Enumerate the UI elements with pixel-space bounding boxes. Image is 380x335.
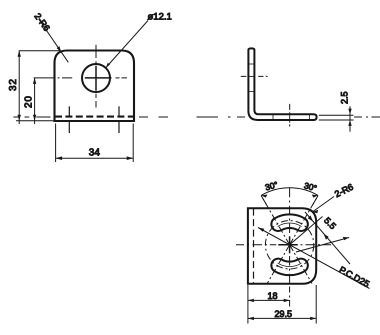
svg-text:5.5: 5.5 [322,215,338,231]
bottom slot centerline arc [278,263,302,267]
top arc slot [271,214,307,231]
bottom view horizontal centerline [236,244,331,246]
side view L profile outline [248,48,316,120]
radial line bottom-left 30deg [267,245,289,284]
dimension 34 [56,124,134,163]
left slot center mark [68,106,70,133]
dimension 29.5 [248,285,316,324]
hole circle [82,64,110,92]
hole horizontal centerline [34,77,127,79]
svg-text:34: 34 [89,148,101,159]
diagonal line through center [290,217,323,245]
side view slot center mark [289,104,291,127]
leader 2-R6 (front) [39,20,68,63]
svg-text:29.5: 29.5 [275,309,293,319]
svg-text:30°: 30° [303,180,318,193]
svg-text:2-R6: 2-R6 [333,182,355,200]
dimension 32 [16,51,60,124]
svg-text:30°: 30° [264,179,279,192]
long horizontal centerline y=117 [13,116,50,118]
pcd pointer line [296,238,349,253]
dimension 2.5 [319,106,354,132]
leader 2-R6 (bottom view) [312,197,334,213]
svg-text:2-R6: 2-R6 [32,11,52,33]
PCD leader line [258,228,370,289]
top slot centerline arc [278,223,302,227]
svg-text:18: 18 [268,291,278,301]
bottom view vertical centerline [289,188,291,307]
bottom view bend tangent hidden line [253,209,255,284]
side view slot projection ticks [272,114,274,120]
pitch circle [265,221,313,269]
dimension 18 [248,285,290,307]
hole vertical centerline [95,45,97,108]
right slot center mark [118,106,120,133]
angle dimension arc [261,188,318,196]
side view hole center mark [241,75,268,77]
svg-text:ø12.1: ø12.1 [148,12,172,23]
radial extension left [261,196,266,205]
front view bend hidden line [55,116,134,118]
svg-text:20: 20 [24,95,35,108]
radial line +30deg [290,196,318,245]
slot width dimension line 5.5 [305,212,350,264]
leader dia 12.1 [106,21,148,68]
svg-text:P.C.D25: P.C.D25 [338,265,372,290]
bottom view plate outline [248,208,316,284]
svg-text:2.5: 2.5 [340,91,350,104]
front view plate outline [55,51,135,122]
radial line -30deg [261,196,289,245]
dimension 20 [33,78,36,124]
radial extension right [313,196,318,205]
svg-text:32: 32 [8,78,19,91]
radial line bottom-right 30deg [290,245,312,284]
side view hole projection ticks [248,63,254,65]
bottom arc slot [271,259,307,276]
